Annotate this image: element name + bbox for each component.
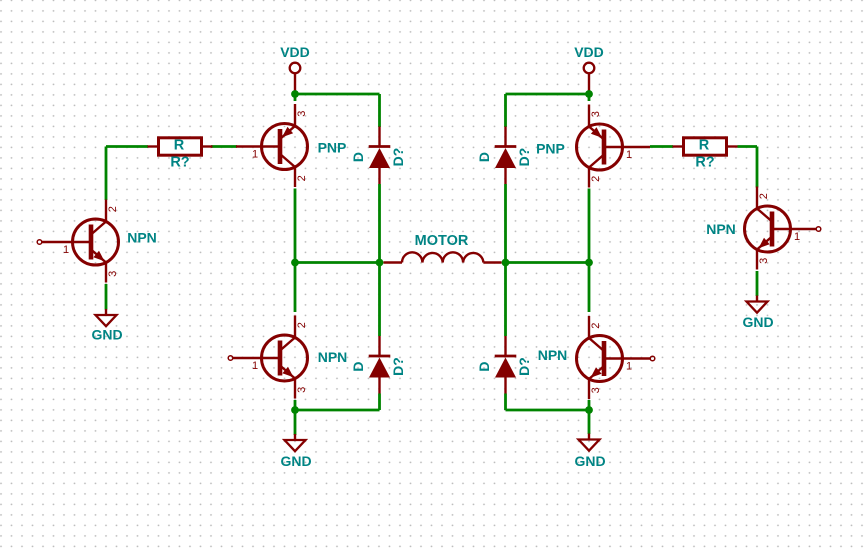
svg-text:R: R bbox=[174, 138, 185, 154]
svg-text:D?: D? bbox=[516, 357, 532, 376]
svg-text:3: 3 bbox=[296, 387, 308, 393]
svg-text:GND: GND bbox=[280, 453, 311, 469]
svg-text:2: 2 bbox=[107, 206, 119, 212]
svg-text:VDD: VDD bbox=[280, 44, 310, 60]
svg-text:D?: D? bbox=[390, 357, 406, 376]
svg-text:D: D bbox=[476, 361, 492, 371]
svg-text:3: 3 bbox=[758, 258, 770, 264]
svg-text:2: 2 bbox=[758, 193, 770, 199]
svg-text:GND: GND bbox=[742, 314, 773, 330]
svg-text:3: 3 bbox=[107, 271, 119, 277]
svg-text:3: 3 bbox=[296, 111, 308, 117]
svg-text:D: D bbox=[350, 361, 366, 371]
svg-text:D: D bbox=[350, 152, 366, 162]
svg-text:NPN: NPN bbox=[127, 230, 157, 246]
svg-text:2: 2 bbox=[590, 323, 602, 329]
svg-text:MOTOR: MOTOR bbox=[415, 233, 469, 249]
svg-text:NPN: NPN bbox=[538, 347, 568, 363]
svg-text:1: 1 bbox=[252, 149, 258, 161]
svg-text:D: D bbox=[476, 152, 492, 162]
svg-text:2: 2 bbox=[296, 322, 308, 328]
svg-text:PNP: PNP bbox=[318, 139, 347, 155]
svg-text:3: 3 bbox=[590, 387, 602, 393]
svg-text:PNP: PNP bbox=[536, 141, 565, 157]
svg-text:1: 1 bbox=[626, 149, 632, 161]
svg-text:NPN: NPN bbox=[318, 349, 348, 365]
svg-text:VDD: VDD bbox=[574, 44, 604, 60]
svg-text:2: 2 bbox=[296, 175, 308, 181]
svg-text:D?: D? bbox=[516, 148, 532, 167]
svg-text:GND: GND bbox=[574, 453, 605, 469]
svg-text:2: 2 bbox=[590, 176, 602, 182]
svg-text:1: 1 bbox=[252, 360, 258, 372]
svg-text:D?: D? bbox=[390, 148, 406, 167]
svg-text:1: 1 bbox=[63, 244, 69, 256]
svg-text:1: 1 bbox=[626, 361, 632, 373]
svg-text:R?: R? bbox=[170, 155, 189, 171]
svg-text:GND: GND bbox=[91, 327, 122, 343]
svg-text:1: 1 bbox=[794, 231, 800, 243]
svg-text:R?: R? bbox=[695, 155, 714, 171]
svg-text:NPN: NPN bbox=[706, 221, 736, 237]
svg-text:3: 3 bbox=[590, 111, 602, 117]
svg-text:R: R bbox=[699, 138, 710, 154]
